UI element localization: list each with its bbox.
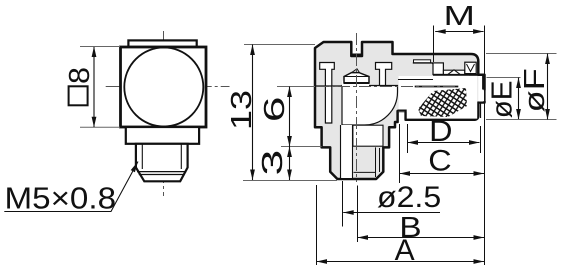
dimension label oF	[517, 68, 550, 112]
sleeve internals: white slot	[414, 60, 431, 63]
collet tip lower edge line	[484, 90, 486, 101]
leader o2.5	[343, 212, 440, 214]
svg-text:A: A	[395, 234, 415, 267]
centerline vertical (front view axis)	[163, 31, 165, 196]
cavity (white) with elbow arc	[342, 86, 398, 126]
counterbore white block	[353, 125, 383, 146]
sleeve internals: lower white strip	[443, 70, 464, 74]
dimension B: extension line	[357, 186, 359, 243]
leader line M5x0.8	[4, 162, 138, 212]
svg-text:3: 3	[257, 150, 289, 176]
body cap (front view top cap)	[128, 40, 196, 47]
svg-text:øE: øE	[486, 81, 519, 119]
right T-slot (white)	[376, 63, 392, 86]
svg-text:øF: øF	[517, 68, 550, 112]
dimension 6: extension lines	[277, 87, 322, 147]
tube half-section boundary line	[415, 86, 459, 88]
dimension oF: extension lines	[486, 54, 557, 120]
thin sleeve edge line	[398, 79, 433, 81]
dimension label M5x0.8	[5, 180, 117, 215]
dimension o2.5: extension line	[342, 181, 344, 227]
dimension 13: line and arrows	[250, 45, 255, 181]
svg-text:C: C	[428, 144, 451, 178]
dimension square-8: extension lines	[80, 47, 120, 128]
poppet peak lines	[352, 69, 360, 73]
thread minor diameter lines (front view)	[142, 145, 181, 170]
svg-text:M5×0.8: M5×0.8	[5, 180, 117, 215]
svg-text:D: D	[429, 114, 452, 148]
dimension label oE	[486, 81, 519, 119]
passage line across body	[315, 85, 342, 87]
knurl patch (release sleeve grip)	[418, 88, 467, 117]
dimension label M	[443, 1, 474, 32]
thread stud (front view)	[136, 144, 188, 182]
dimension M: extension lines	[433, 26, 435, 63]
dimension label 3	[257, 150, 289, 176]
sleeve internals: step line	[413, 63, 436, 67]
dimension B: line and arrows	[358, 235, 485, 240]
dimension oF: line and arrows	[545, 54, 550, 120]
vertical axis dash-dot (side view)	[356, 33, 358, 182]
square body (front view)	[121, 47, 207, 127]
dimension label o2.5	[377, 180, 441, 214]
dimension C: line and arrows	[400, 171, 485, 176]
hex step below square (front view)	[126, 127, 199, 144]
svg-text:8: 8	[64, 67, 96, 84]
leader arrowhead M5x0.8	[131, 162, 138, 173]
chamfer inner line	[354, 171, 376, 173]
svg-text:M: M	[443, 1, 474, 32]
pocket V mark	[467, 64, 475, 72]
thread chamfer line 2 (front view)	[139, 174, 185, 176]
sleeve internals: chevron	[448, 70, 460, 75]
body silhouette gray fill	[315, 42, 485, 179]
dimension square-8: dimension line with arrows	[92, 47, 97, 128]
dimension A: extension line	[316, 185, 318, 265]
dimension 3: line and arrows	[287, 147, 292, 181]
dimension label square-8	[69, 86, 88, 105]
collet bottom inner line	[480, 104, 482, 119]
dimension label 13	[224, 90, 257, 130]
dimension label 6	[259, 96, 291, 122]
poppet cone (section)	[344, 73, 369, 83]
dimension C: extension line	[399, 124, 401, 183]
dimension 13: extension lines	[243, 45, 337, 181]
dimension label B	[399, 211, 421, 243]
dimension D: line and arrows	[408, 140, 480, 145]
bottom lip step	[398, 111, 406, 120]
dimension label D	[429, 114, 452, 148]
dimension 6: line and arrows	[287, 87, 292, 147]
dimension oE: extension line	[487, 77, 521, 79]
horizontal axis dash-dot (side view tube)	[296, 86, 458, 88]
dimension A: line and arrows	[317, 259, 485, 264]
dimension D: extension lines	[408, 124, 481, 153]
cone base line	[344, 82, 369, 84]
cavity upper-left white area	[342, 81, 369, 87]
dimension oE: line and arrows	[516, 78, 521, 120]
inscribed circle (front view round body)	[124, 48, 203, 127]
collet tip thick edge (upper)	[482, 76, 485, 90]
dimension label A	[395, 234, 415, 267]
dimension label C	[428, 144, 451, 178]
inner wall line right	[375, 147, 377, 177]
hole wall lines	[341, 125, 353, 178]
thread chamfer line 1 (front view)	[137, 171, 187, 173]
ø2.5 hole white column	[341, 125, 352, 178]
step line under cap right	[469, 74, 485, 76]
step boundary under sleeve	[433, 74, 479, 76]
svg-text:ø2.5: ø2.5	[377, 180, 441, 214]
svg-text:6: 6	[259, 96, 291, 122]
sleeve internals: white box	[433, 63, 443, 75]
left T-slot (white)	[320, 63, 335, 124]
tube lower half external (white)	[399, 76, 478, 119]
thread minor line right (section)	[379, 148, 381, 172]
sleeve internals: white pocket with V	[465, 62, 476, 73]
dimension M: line and arrows	[435, 29, 483, 34]
collet tip interior (white)	[478, 76, 483, 102]
notch bottom thick line	[351, 54, 362, 57]
svg-text:13: 13	[224, 90, 257, 130]
centerline horizontal (front view axis)	[106, 86, 230, 88]
cone shoulder line	[344, 76, 369, 78]
collet tip lower lightened	[482, 90, 486, 101]
